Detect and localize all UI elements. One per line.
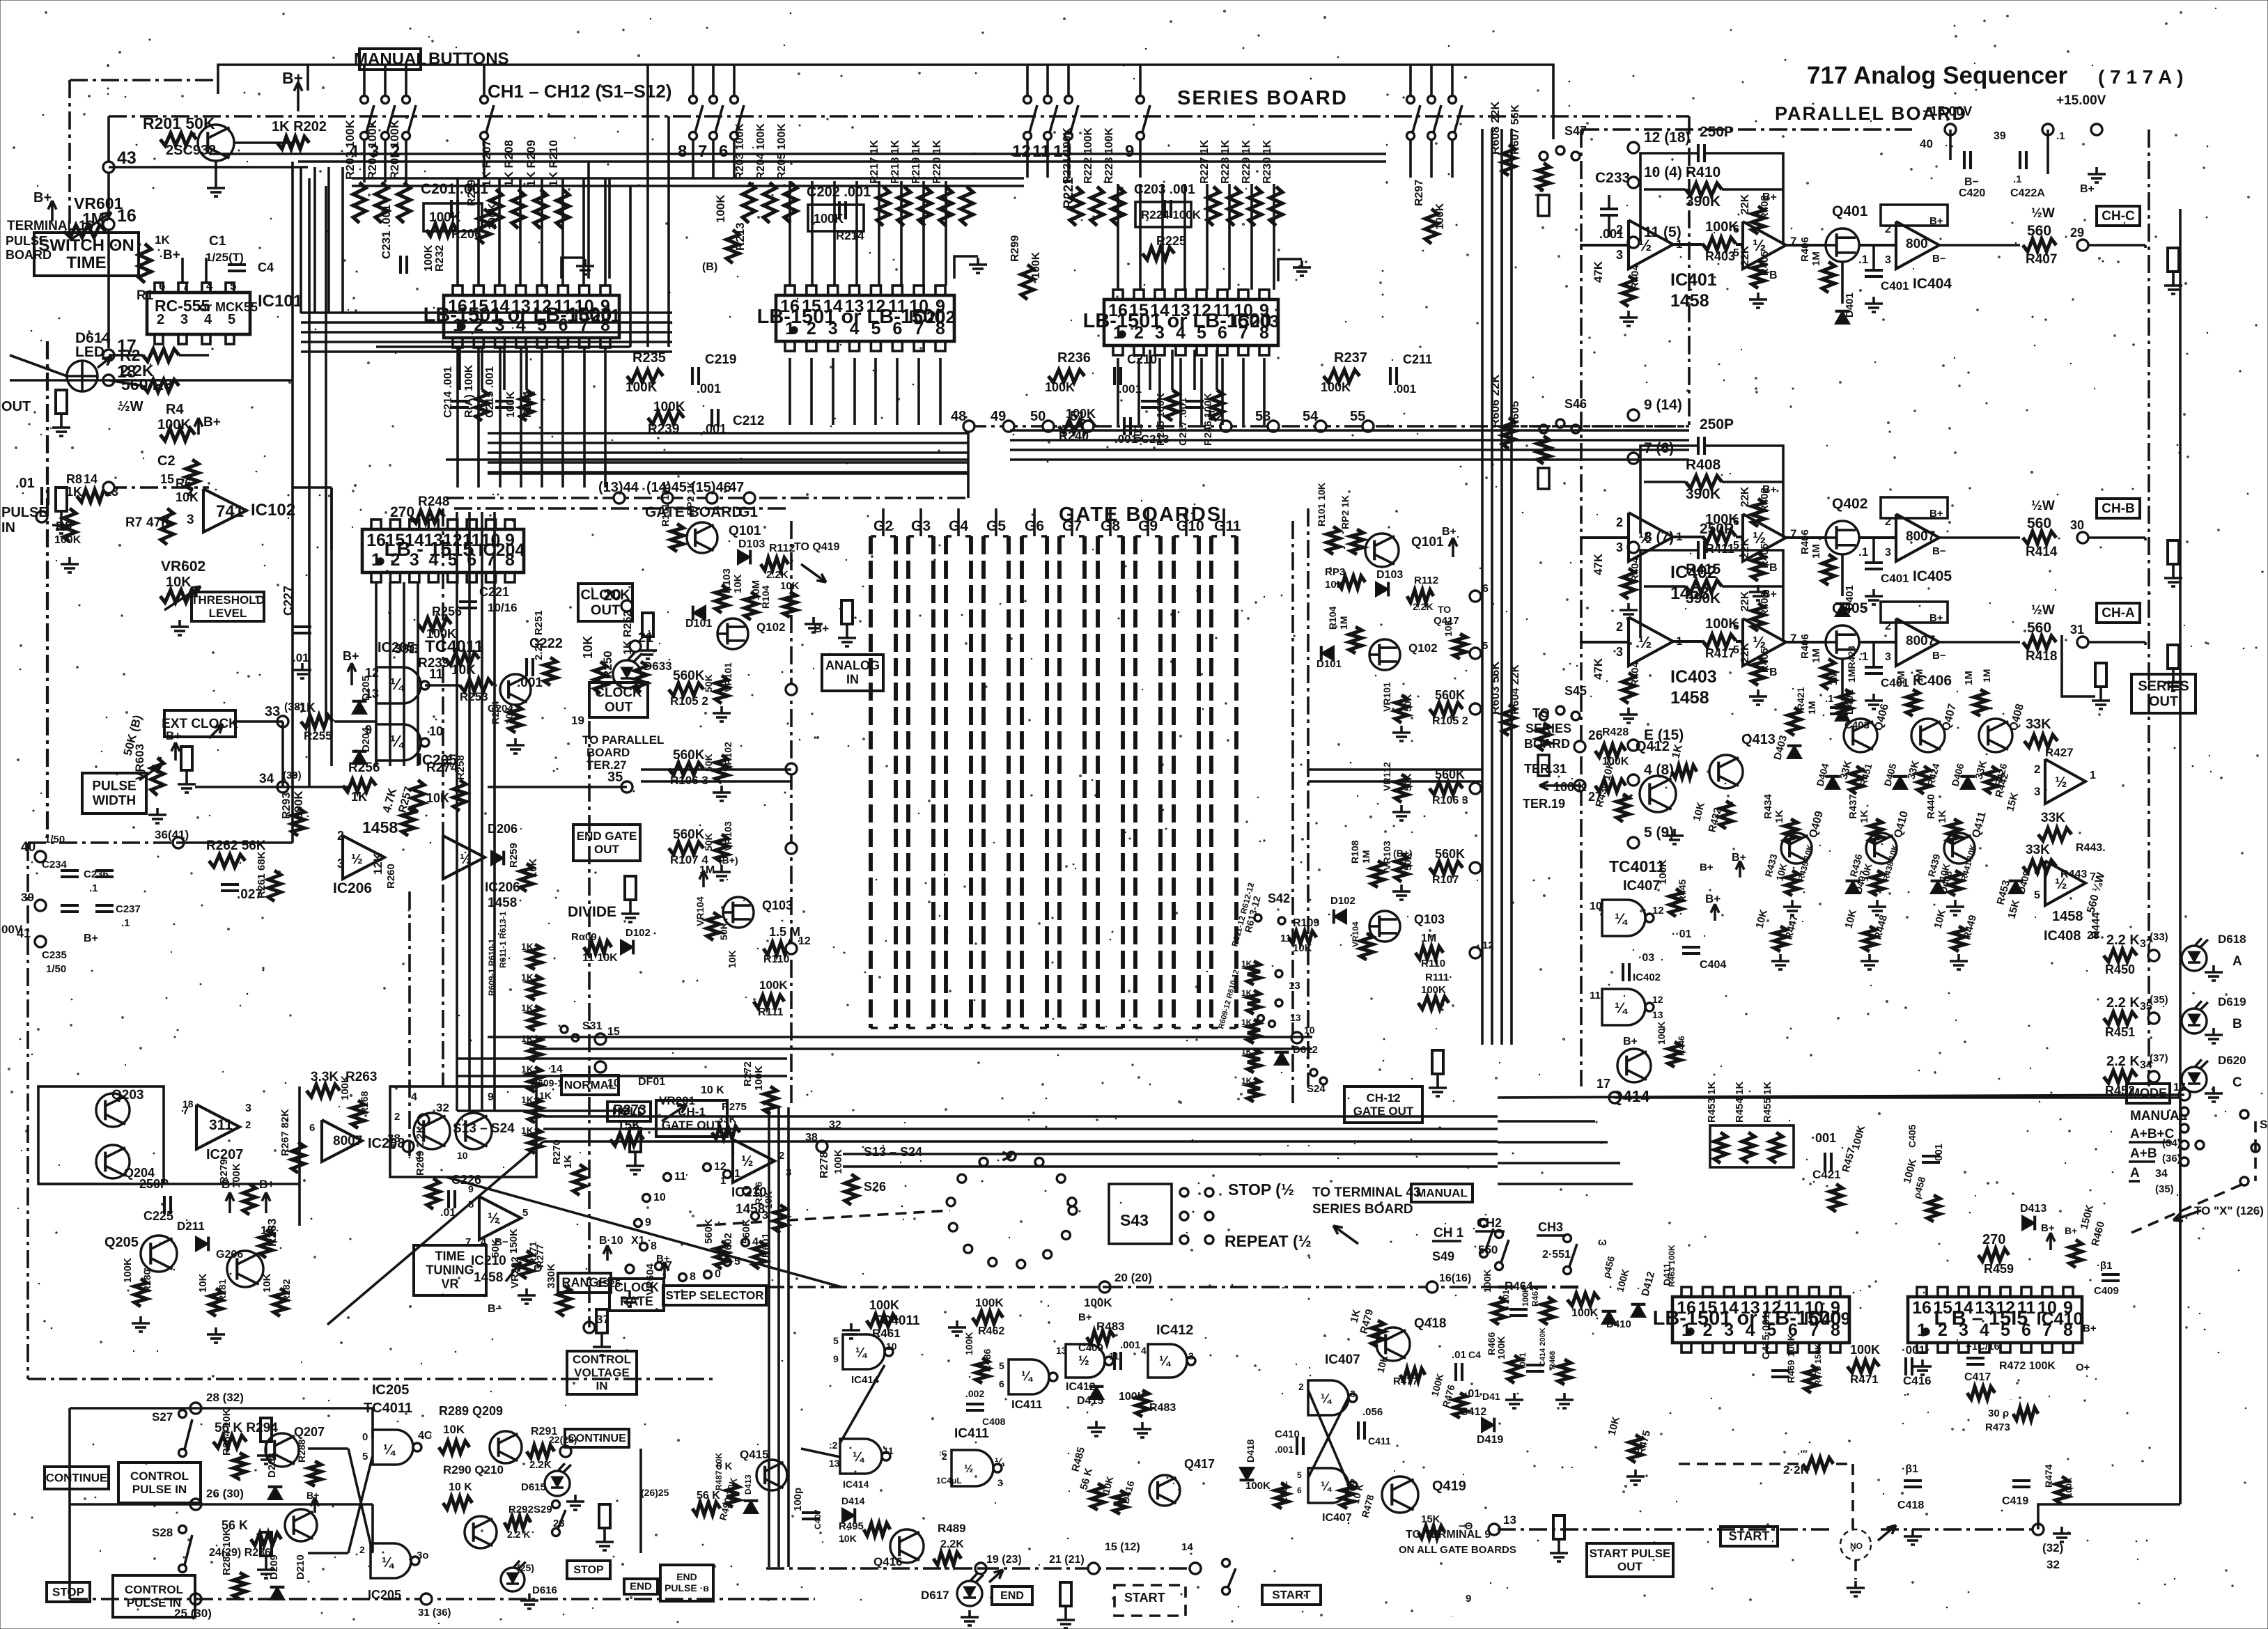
svg-text:8: 8 — [690, 1271, 696, 1283]
svg-text:C401: C401 — [1881, 279, 1909, 293]
svg-text:13: 13 — [1056, 1345, 1067, 1356]
svg-text:IC205-: IC205- — [378, 640, 419, 655]
svg-text:C411: C411 — [1368, 1435, 1391, 1447]
svg-text:2: 2 — [1616, 620, 1623, 634]
svg-text:TER.31: TER.31 — [1524, 762, 1567, 776]
svg-text:R407: R407 — [2026, 252, 2057, 267]
svg-text:PULSE IN: PULSE IN — [127, 1596, 181, 1609]
svg-text:.1: .1 — [2056, 130, 2065, 142]
svg-text:10 K: 10 K — [701, 1084, 724, 1096]
svg-text:2: 2 — [754, 1185, 760, 1197]
svg-text:12: 12 — [1652, 905, 1664, 917]
svg-text:END: END — [1000, 1590, 1024, 1602]
svg-text:1: 1 — [734, 1168, 740, 1180]
svg-text:R112: R112 — [769, 543, 795, 554]
svg-text:B+: B+ — [2065, 1225, 2077, 1236]
svg-text:2: 2 — [1885, 224, 1891, 235]
svg-text:10K: 10K — [527, 858, 539, 878]
svg-text:R290 Q210: R290 Q210 — [443, 1463, 504, 1476]
svg-text:1K R202: 1K R202 — [272, 119, 327, 134]
svg-text:C416: C416 — [1903, 1374, 1932, 1387]
svg-text:B+: B+ — [343, 649, 359, 663]
svg-text:2: 2 — [394, 1111, 400, 1123]
svg-text:B+: B+ — [84, 933, 98, 944]
svg-text:R232: R232 — [434, 245, 446, 272]
svg-text:30: 30 — [2070, 518, 2084, 532]
svg-text:C405: C405 — [1906, 1124, 1918, 1148]
svg-text:0: 0 — [715, 1268, 721, 1280]
svg-text:IC208: IC208 — [368, 1136, 405, 1151]
svg-text:.001: .001 — [1275, 1444, 1294, 1455]
svg-text:11: 11 — [883, 1445, 894, 1456]
svg-text:RATE: RATE — [620, 1295, 653, 1309]
svg-text:S43: S43 — [1120, 1211, 1149, 1229]
svg-text:R219 1K: R219 1K — [910, 139, 922, 184]
svg-text:RP2 1K: RP2 1K — [1339, 495, 1351, 529]
svg-text:1458: 1458 — [1670, 688, 1709, 708]
svg-text:2: 2 — [359, 1544, 365, 1555]
svg-text:C415·001: C415·001 — [1760, 1314, 1772, 1359]
svg-text:G10: G10 — [1176, 518, 1204, 534]
svg-text:14: 14 — [1181, 1541, 1193, 1553]
svg-text:1M: 1M — [1338, 616, 1349, 630]
svg-text:1: 1 — [1676, 530, 1682, 543]
svg-text:16: 16 — [1912, 1298, 1932, 1318]
svg-text:34: 34 — [2155, 1168, 2168, 1180]
svg-text:5: 5 — [362, 1451, 368, 1463]
svg-text:R606 22K: R606 22K — [1489, 374, 1502, 428]
svg-text:SERIES BOARD: SERIES BOARD — [1312, 1202, 1413, 1217]
svg-text:100K: 100K — [814, 212, 844, 226]
svg-text:13: 13 — [1289, 980, 1300, 992]
svg-text:S26: S26 — [864, 1180, 886, 1194]
svg-text:B+: B+ — [1762, 192, 1777, 203]
svg-text:IC410: IC410 — [2037, 1309, 2083, 1329]
svg-text:½: ½ — [741, 1153, 754, 1169]
svg-text:Q416: Q416 — [873, 1555, 903, 1568]
svg-text:R289 Q209: R289 Q209 — [439, 1404, 503, 1418]
svg-text:C412: C412 — [1460, 1406, 1486, 1418]
svg-text:R104: R104 — [1327, 606, 1338, 630]
svg-text:G11: G11 — [1214, 518, 1241, 534]
svg-text:R105 2: R105 2 — [1432, 715, 1468, 727]
svg-text:1K R208: 1K R208 — [502, 140, 515, 187]
svg-text:(35): (35) — [2155, 1183, 2174, 1195]
svg-text:5: 5 — [1297, 1470, 1302, 1480]
svg-text:½: ½ — [1753, 236, 1766, 254]
svg-text:IC403: IC403 — [1670, 667, 1717, 687]
svg-text:R105 2: R105 2 — [670, 694, 708, 708]
svg-text:OUT: OUT — [1617, 1560, 1643, 1573]
svg-text:VR101: VR101 — [1381, 682, 1392, 712]
svg-text:R220 1K: R220 1K — [931, 139, 943, 184]
svg-text:100K: 100K — [626, 380, 658, 395]
svg-text:R236: R236 — [1057, 350, 1091, 366]
svg-text:3: 3 — [180, 312, 188, 327]
svg-text:R483: R483 — [1149, 1402, 1176, 1414]
svg-text:B−: B− — [1932, 545, 1946, 557]
svg-text:R253: R253 — [460, 690, 488, 703]
svg-text:CH-A: CH-A — [2102, 606, 2135, 621]
svg-text:.1: .1 — [89, 882, 98, 894]
svg-text:PULSE IN: PULSE IN — [132, 1483, 187, 1496]
svg-text:VR101: VR101 — [722, 662, 733, 692]
svg-text:9: 9 — [833, 1353, 839, 1364]
svg-text:D633: D633 — [644, 660, 672, 673]
svg-text:100p: 100p — [792, 1488, 804, 1511]
svg-text:7: 7 — [698, 142, 707, 161]
svg-text:13: 13 — [1652, 1009, 1663, 1020]
svg-text:4: 4 — [411, 1091, 417, 1103]
svg-text:·03: ·03 — [1638, 952, 1654, 964]
svg-text:(32): (32) — [2042, 1541, 2063, 1554]
svg-text:(37): (37) — [2150, 1052, 2168, 1064]
svg-text:6: 6 — [999, 1378, 1004, 1389]
svg-text:560: 560 — [2027, 515, 2051, 531]
svg-text:1M: 1M — [1963, 671, 1975, 685]
svg-text:CLOCK: CLOCK — [614, 1281, 659, 1295]
svg-text:21: 21 — [638, 630, 653, 646]
svg-text:··01: ··01 — [1672, 928, 1692, 940]
svg-text:3: 3 — [2034, 785, 2040, 798]
svg-text:10: 10 — [457, 1150, 468, 1161]
svg-text:LED: LED — [75, 344, 104, 360]
svg-text:C2: C2 — [157, 453, 176, 469]
svg-text:12K: 12K — [371, 852, 385, 875]
svg-text:3: 3 — [1616, 248, 1623, 262]
svg-text:1K: 1K — [521, 1094, 534, 1105]
svg-text:R603 56K: R603 56K — [1489, 661, 1502, 715]
svg-text:D206: D206 — [488, 822, 518, 836]
svg-text:OUT: OUT — [591, 602, 620, 618]
svg-text:100K: 100K — [1496, 1336, 1507, 1359]
svg-text:4: 4 — [752, 1236, 759, 1248]
svg-text:1K: 1K — [521, 1002, 534, 1013]
svg-text:3: 3 — [1885, 651, 1891, 663]
svg-text:15: 15 — [160, 472, 174, 486]
svg-text:C212: C212 — [733, 414, 764, 428]
svg-text:BUTTONS: BUTTONS — [428, 49, 509, 68]
svg-text:S13 – S24: S13 – S24 — [864, 1145, 922, 1159]
svg-text:2.2 K: 2.2 K — [507, 1529, 530, 1540]
svg-text:33: 33 — [265, 704, 280, 719]
svg-text:1K: 1K — [1241, 1076, 1252, 1086]
svg-text:R469 100K: R469 100K — [1785, 1334, 1796, 1383]
svg-text:Q102: Q102 — [756, 621, 786, 634]
svg-text:·β1: ·β1 — [1902, 1463, 1918, 1475]
svg-text:29: 29 — [2070, 226, 2084, 240]
svg-text:150K: 150K — [508, 1229, 520, 1254]
svg-text:VR602: VR602 — [161, 559, 205, 575]
svg-text:C414 200K: C414 200K — [1539, 1327, 1547, 1366]
svg-text:10: 10 — [1590, 901, 1602, 912]
svg-text:D211: D211 — [177, 1219, 205, 1233]
svg-text:1K: 1K — [1241, 988, 1252, 998]
svg-text:C214 .001: C214 .001 — [442, 366, 454, 418]
svg-text:10 (4): 10 (4) — [1644, 164, 1682, 180]
svg-text:½: ½ — [2055, 876, 2067, 892]
svg-text:D415: D415 — [1077, 1395, 1103, 1407]
svg-text:10: 10 — [429, 724, 443, 738]
svg-text:.1: .1 — [121, 917, 130, 929]
svg-text:R406: R406 — [1799, 634, 1811, 659]
svg-text:8007: 8007 — [333, 1134, 362, 1148]
svg-text:11: 11 — [429, 667, 444, 682]
svg-text:R1: R1 — [137, 288, 154, 303]
svg-text:Q418: Q418 — [1414, 1316, 1446, 1331]
svg-text:WIDTH: WIDTH — [93, 793, 136, 808]
svg-text:R453 1K: R453 1K — [1706, 1082, 1718, 1123]
svg-text:R262 56K: R262 56K — [206, 839, 266, 853]
svg-text:IC206: IC206 — [485, 880, 520, 895]
svg-text:2.2 K: 2.2 K — [2106, 995, 2140, 1011]
svg-text:IC411: IC411 — [954, 1426, 989, 1441]
svg-text:3: 3 — [997, 1477, 1003, 1488]
svg-text:13: 13 — [1503, 1513, 1516, 1527]
svg-text:Q412: Q412 — [1636, 739, 1670, 754]
svg-text:7: 7 — [1790, 235, 1796, 248]
svg-text:R110: R110 — [763, 953, 789, 965]
svg-text::2: :2 — [829, 1440, 838, 1451]
svg-text:50K: 50K — [490, 1238, 502, 1258]
svg-text:B−: B− — [1964, 176, 1979, 188]
svg-text:B+: B+ — [1929, 508, 1943, 520]
svg-text:½W: ½W — [2031, 603, 2055, 618]
svg-text:( 7 1 7 A ): ( 7 1 7 A ) — [2098, 66, 2183, 88]
svg-text:3: 3 — [245, 1102, 251, 1114]
svg-text:C203 .001: C203 .001 — [1134, 182, 1195, 197]
svg-text:IC202: IC202 — [909, 308, 956, 327]
svg-text:R454 1K: R454 1K — [1734, 1082, 1746, 1123]
svg-text:NO: NO — [1850, 1541, 1863, 1551]
svg-text:.01: .01 — [15, 476, 35, 491]
svg-text:47K: 47K — [1592, 553, 1605, 575]
svg-text:100K: 100K — [505, 391, 517, 418]
svg-text:10K: 10K — [1293, 942, 1312, 954]
svg-text:G1: G1 — [738, 504, 758, 520]
svg-text:50K: 50K — [718, 922, 729, 940]
svg-text:VR: VR — [441, 1277, 458, 1291]
svg-text:3ο: 3ο — [417, 1550, 429, 1561]
svg-text:(15)46: (15)46 — [691, 480, 731, 495]
svg-text:·001: ·001 — [1518, 1353, 1528, 1369]
svg-text:D615: D615 — [521, 1481, 546, 1493]
svg-text:1K: 1K — [351, 790, 367, 804]
svg-text:R489: R489 — [938, 1522, 966, 1535]
svg-text:CONTINUE: CONTINUE — [568, 1433, 626, 1444]
svg-text:¼: ¼ — [382, 1555, 395, 1570]
svg-text:R4: R4 — [166, 402, 184, 417]
svg-text:1C4μL: 1C4μL — [936, 1476, 962, 1486]
svg-text:VR104: VR104 — [694, 896, 706, 926]
svg-text:10K: 10K — [443, 1423, 465, 1436]
svg-text:D413: D413 — [743, 1474, 753, 1495]
svg-text:MANUAL: MANUAL — [354, 49, 426, 68]
svg-text:2·551: 2·551 — [1542, 1249, 1571, 1261]
svg-text:R203 100K: R203 100K — [343, 119, 357, 180]
svg-text:STOP: STOP — [52, 1585, 84, 1598]
svg-text:5: 5 — [390, 1140, 396, 1152]
svg-text:S42: S42 — [1268, 891, 1290, 905]
svg-text:6: 6 — [159, 279, 165, 293]
svg-text:C211: C211 — [1403, 352, 1432, 366]
svg-text:22K: 22K — [1739, 245, 1751, 266]
svg-text:8: 8 — [651, 1240, 657, 1252]
svg-text:R284 10K: R284 10K — [221, 1408, 233, 1456]
svg-text:C237: C237 — [116, 903, 141, 915]
svg-text:Q102: Q102 — [1408, 641, 1438, 655]
svg-text:100 K: 100 K — [1553, 780, 1587, 794]
svg-text:1458: 1458 — [362, 818, 398, 836]
svg-text:CH3: CH3 — [1538, 1220, 1563, 1234]
svg-text:8007: 8007 — [1906, 529, 1935, 544]
svg-text:Q401: Q401 — [1832, 203, 1868, 219]
svg-text:C202 .001: C202 .001 — [807, 185, 871, 200]
svg-text:Q207: Q207 — [294, 1425, 325, 1439]
svg-text:END: END — [630, 1581, 652, 1593]
svg-text:.001: .001 — [1393, 382, 1416, 396]
svg-text:19: 19 — [571, 714, 584, 727]
svg-text:1M: 1M — [1913, 669, 1925, 683]
svg-text:R299: R299 — [1009, 235, 1021, 262]
svg-text:22K: 22K — [1739, 642, 1751, 663]
svg-text:5 (9): 5 (9) — [1644, 825, 1674, 841]
svg-text:D401: D401 — [1844, 293, 1856, 318]
svg-text:10K: 10K — [166, 575, 192, 590]
svg-text:D41: D41 — [1482, 1391, 1500, 1402]
svg-text:½: ½ — [488, 1210, 500, 1226]
svg-text:TO "X" (126): TO "X" (126) — [2194, 1204, 2264, 1217]
svg-text:Q101: Q101 — [1411, 535, 1444, 550]
svg-text:(B+): (B+) — [1393, 848, 1413, 859]
svg-text:D620: D620 — [2218, 1054, 2246, 1067]
svg-text:D102: D102 — [626, 927, 651, 939]
svg-text:½: ½ — [351, 852, 363, 867]
svg-text:6: 6 — [719, 142, 728, 161]
svg-text:R272: R272 — [742, 1061, 754, 1086]
svg-text:+15.00V: +15.00V — [2056, 93, 2106, 108]
svg-text:R408: R408 — [1686, 457, 1721, 473]
svg-text:9: 9 — [1125, 142, 1134, 161]
svg-text:14: 14 — [84, 472, 98, 486]
svg-text:+1C/16: +1C/16 — [1966, 1341, 2000, 1353]
svg-text:Q405: Q405 — [1832, 600, 1868, 616]
svg-text:LB - 1515: LB - 1515 — [385, 538, 474, 561]
svg-text:1458: 1458 — [488, 896, 517, 910]
svg-text:3: 3 — [1350, 1388, 1356, 1399]
svg-text:311: 311 — [209, 1117, 233, 1133]
svg-text:R255: R255 — [304, 729, 332, 742]
svg-text:PULSE ·ʙ: PULSE ·ʙ — [665, 1582, 709, 1593]
svg-text:R230 1K: R230 1K — [1261, 139, 1273, 184]
svg-text:R472 100K: R472 100K — [1999, 1360, 2056, 1372]
svg-text:9: 9 — [645, 1217, 651, 1229]
svg-text:B+: B+ — [1762, 484, 1777, 496]
svg-text:1458: 1458 — [2052, 909, 2083, 924]
svg-text:D419: D419 — [1477, 1434, 1503, 1446]
svg-text:R459: R459 — [1984, 1262, 2014, 1276]
svg-text:STOP: STOP — [573, 1564, 604, 1576]
svg-text:D616: D616 — [532, 1584, 557, 1596]
svg-text:TO TERMINAL 43: TO TERMINAL 43 — [1312, 1185, 1421, 1200]
svg-text:½: ½ — [1078, 1354, 1089, 1369]
svg-text:S45: S45 — [1564, 684, 1587, 698]
svg-text:LEVEL: LEVEL — [209, 607, 247, 620]
svg-text:Q203: Q203 — [111, 1088, 143, 1102]
svg-text:11 10K: 11 10K — [582, 952, 618, 964]
svg-text:1: 1 — [1676, 634, 1682, 648]
svg-text:11: 11 — [1032, 142, 1050, 161]
svg-text:10K: 10K — [1443, 618, 1454, 637]
svg-text:5: 5 — [999, 1360, 1004, 1371]
svg-text:R(A) 100K: R(A) 100K — [463, 364, 475, 418]
svg-text:33K: 33K — [2026, 717, 2051, 732]
svg-text:3 201: 3 201 — [1501, 1290, 1511, 1311]
svg-text:2: 2 — [1298, 1381, 1304, 1392]
svg-text:R214: R214 — [836, 229, 864, 242]
svg-text:R260: R260 — [385, 864, 397, 889]
svg-text:IC405: IC405 — [1913, 568, 1952, 584]
svg-text:D103: D103 — [738, 538, 765, 550]
svg-text:R428: R428 — [1602, 726, 1629, 738]
svg-text:3: 3 — [1616, 645, 1623, 659]
svg-text:B: B — [1769, 270, 1778, 281]
svg-text:1M: 1M — [1810, 251, 1822, 266]
svg-text:ω: ω — [1598, 1236, 1607, 1248]
svg-text:R404: R404 — [1629, 661, 1641, 687]
svg-text:2: 2 — [1885, 516, 1891, 528]
svg-text:R8: R8 — [66, 472, 82, 486]
svg-text:¼: ¼ — [1615, 911, 1628, 927]
svg-text:SERIES: SERIES — [1525, 722, 1571, 735]
svg-text:RP2 1K: RP2 1K — [685, 481, 696, 515]
svg-text:D210: D210 — [295, 1554, 306, 1580]
svg-text:CONTROL: CONTROL — [130, 1470, 189, 1483]
svg-text:1M: 1M — [1810, 544, 1822, 559]
svg-text:R462: R462 — [978, 1325, 1004, 1337]
svg-text:(B+): (B+) — [719, 855, 738, 866]
svg-text:5: 5 — [228, 312, 235, 327]
svg-text:TUNING: TUNING — [426, 1263, 474, 1277]
svg-text:12: 12 — [1652, 994, 1663, 1005]
svg-text:S27: S27 — [152, 1410, 173, 1424]
svg-text:3: 3 — [1885, 547, 1891, 559]
svg-text:R217 1K: R217 1K — [869, 139, 880, 184]
svg-text:1K: 1K — [1241, 1018, 1252, 1027]
svg-text:Q402: Q402 — [1832, 496, 1867, 512]
svg-text:1M: 1M — [1981, 669, 1992, 683]
svg-text:4: 4 — [1141, 1345, 1147, 1356]
svg-text:R270: R270 — [551, 1139, 563, 1164]
svg-text:6: 6 — [2034, 866, 2040, 878]
svg-text:R205 100K: R205 100K — [776, 123, 788, 180]
svg-text:VR201: VR201 — [659, 1094, 695, 1107]
svg-text:O+: O+ — [2076, 1362, 2090, 1373]
svg-text:10K: 10K — [780, 580, 800, 592]
svg-text:6: 6 — [1733, 516, 1739, 528]
svg-text:R112: R112 — [1414, 575, 1438, 586]
svg-text:741: 741 — [216, 502, 244, 521]
svg-text:330K: 330K — [545, 1263, 557, 1288]
svg-text:(B): (B) — [702, 261, 717, 273]
svg-text:R223 100K: R223 100K — [1103, 127, 1115, 184]
svg-text:100K: 100K — [753, 1066, 765, 1091]
svg-text:1/50: 1/50 — [46, 963, 66, 975]
svg-text:22K: 22K — [1739, 538, 1751, 559]
svg-text:B+: B+ — [1078, 1311, 1092, 1323]
svg-text:D101: D101 — [1316, 658, 1342, 670]
svg-text:4C: 4C — [418, 1430, 433, 1442]
